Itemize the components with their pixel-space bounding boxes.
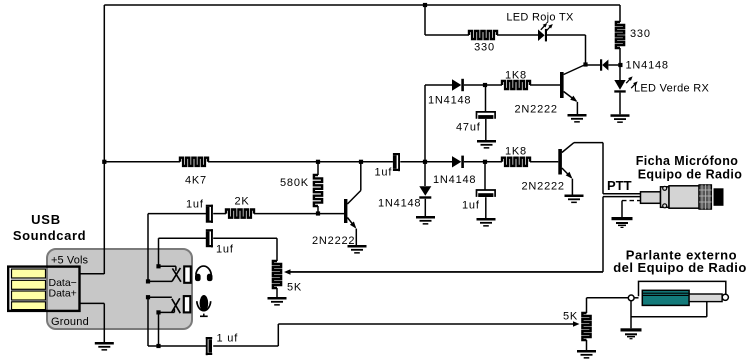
junction left rail row3 xyxy=(102,160,106,164)
wire +5V from USB plug to rail xyxy=(80,273,105,275)
headphone jack switch contact xyxy=(172,268,180,282)
wire row2 to row3 vertical xyxy=(424,85,426,162)
junction 580K top xyxy=(316,160,320,164)
wire left terminal link xyxy=(634,297,638,299)
wire mic upper contact xyxy=(148,296,172,298)
ground mic connector shield xyxy=(612,217,633,220)
wire top rail drop to TX branch xyxy=(424,5,426,35)
wire top rail to 330 resistor xyxy=(619,5,621,22)
svg-text:2N2222: 2N2222 xyxy=(312,235,355,247)
wire USB ground from plug xyxy=(80,302,105,304)
wire 330 to RX node xyxy=(619,48,621,65)
capacitor 47uf xyxy=(477,112,496,119)
USB plug outline xyxy=(8,267,79,311)
svg-text:1N4148: 1N4148 xyxy=(378,198,421,210)
mic connector shaft xyxy=(641,192,661,204)
junction row2 / 47uf xyxy=(483,83,487,87)
ground Q1 emitter xyxy=(568,114,587,117)
mic connector barrel xyxy=(669,186,699,208)
capacitor 1uf mic line xyxy=(206,337,208,355)
svg-text:5K: 5K xyxy=(563,311,578,323)
diode 1N4148 row3 xyxy=(452,156,461,167)
junction Q3 collector xyxy=(359,160,363,164)
wire 47uf stem xyxy=(485,85,487,112)
mic connector end pin xyxy=(714,188,724,206)
transistor Q1 emitter xyxy=(564,92,577,102)
svg-text:+5 Vols: +5 Vols xyxy=(51,255,88,267)
wire cap row5 to pot top xyxy=(213,237,277,239)
wire mic lower to bottom run xyxy=(158,312,160,346)
microphone icon xyxy=(200,295,209,311)
wire to Q3 base xyxy=(318,213,344,215)
potentiometer 5K sidetone xyxy=(273,261,281,288)
wire headphone lower contact xyxy=(148,280,172,282)
resistor 1K8 row2 xyxy=(502,81,530,89)
svg-text:2N2222: 2N2222 xyxy=(522,181,565,193)
wire mic cap to pot2 wiper xyxy=(213,345,278,347)
wire pot1 to ground xyxy=(276,288,278,297)
transistor Q2 emitter xyxy=(562,168,571,178)
transistor Q1 collector xyxy=(564,65,586,75)
wire cap to 2K xyxy=(213,213,226,215)
wire 4K7 to 580K junction xyxy=(208,161,318,163)
svg-text:1N4148: 1N4148 xyxy=(626,60,669,72)
wire mic jack to bottom run xyxy=(147,297,149,346)
junction row3 / 1uf shunt xyxy=(483,160,487,164)
junction bottom run xyxy=(156,344,160,348)
svg-text:1uf: 1uf xyxy=(462,200,480,212)
wire Q2 emitter to ground xyxy=(571,179,573,195)
resistor 330 TX xyxy=(469,31,497,39)
wire mic lower contact xyxy=(159,311,175,313)
wire row5 from jack xyxy=(158,238,160,266)
svg-text:Ground: Ground xyxy=(51,316,89,328)
mic connector knurled ring xyxy=(699,185,712,209)
wire Q1 emitter to ground xyxy=(576,102,578,114)
wire shield to ground xyxy=(621,201,623,217)
potentiometer 5K speaker xyxy=(582,313,590,340)
wire Q3 emitter to ground xyxy=(355,229,357,245)
ground Q2 emitter xyxy=(565,195,584,198)
wire junction to diode row3 xyxy=(425,161,452,163)
ground below 1uf shunt xyxy=(477,218,496,221)
LED Rojo TX arrows xyxy=(541,24,546,30)
junction 580K bottom xyxy=(316,211,320,215)
svg-text:del Equipo de Radio: del Equipo de Radio xyxy=(613,260,747,275)
transistor Q3 emitter xyxy=(347,218,355,228)
speaker terminal left xyxy=(628,295,634,301)
capacitor 1uf row5 xyxy=(206,231,210,245)
pot2 wiper arrow xyxy=(573,321,580,327)
svg-text:330: 330 xyxy=(630,28,651,40)
transistor Q2 collector xyxy=(562,143,574,153)
junction top rail / TX branch xyxy=(423,3,427,7)
resistor 1K8 row3 xyxy=(502,158,530,166)
wire diode to junction row2 xyxy=(464,84,485,86)
resistor 330 RX xyxy=(616,22,624,48)
junction mic jack upper xyxy=(146,295,150,299)
svg-text:LED Rojo TX: LED Rojo TX xyxy=(506,12,574,24)
wire 1K8 to Q2 base xyxy=(530,161,558,163)
wire to series cap row3 xyxy=(361,161,393,163)
ground below pot1 xyxy=(268,297,287,300)
wire resistor to LED TX xyxy=(497,34,538,36)
svg-text:1N4148: 1N4148 xyxy=(428,95,471,107)
ground speaker xyxy=(621,328,642,331)
junction collector node xyxy=(583,62,587,66)
wire speaker left terminal to ground xyxy=(630,301,632,329)
capacitor 1uf row3 xyxy=(393,155,397,169)
junction RX node xyxy=(618,63,622,67)
USB plug contact pad 4 (Ground) xyxy=(12,302,46,310)
wire pot1 wiper xyxy=(288,271,604,273)
junction mic jack lower xyxy=(156,310,160,314)
diode 1N4148 to collector node xyxy=(609,64,621,66)
svg-text:Ficha Micrófono: Ficha Micrófono xyxy=(636,154,739,168)
mic connector collar xyxy=(661,187,670,208)
transistor Q1 2N2222 bar xyxy=(560,72,564,98)
wire +5V top rail xyxy=(104,4,620,6)
speaker body teal xyxy=(642,290,689,305)
svg-text:Data+: Data+ xyxy=(49,288,77,300)
capacitor 1uf shunt row3 xyxy=(484,162,486,190)
wire row2 from vertical feed xyxy=(425,84,452,86)
svg-text:USB: USB xyxy=(31,212,61,227)
svg-text:PTT: PTT xyxy=(607,178,632,193)
wire +5V left rail vertical xyxy=(103,5,105,274)
wire LED Verde to ground xyxy=(619,93,621,115)
diode 1N4148 shunt down xyxy=(424,162,426,186)
mic jack switch contact xyxy=(171,298,179,313)
resistor 4K7 xyxy=(180,158,208,166)
wire headphone upper contact xyxy=(159,265,176,267)
wire cap to diode junction row3 xyxy=(400,161,425,163)
wire 1K8 to Q1 base xyxy=(530,84,560,86)
ground Q3 emitter xyxy=(348,245,367,248)
svg-text:1uf: 1uf xyxy=(186,199,204,211)
pot1 wiper arrow xyxy=(284,269,291,275)
wire mic audio lead and drop to pot1 wiper xyxy=(603,196,641,198)
svg-text:LED Verde RX: LED Verde RX xyxy=(634,83,710,95)
speaker plug shaft xyxy=(689,294,722,302)
transistor Q3 collector xyxy=(347,191,360,205)
transistor Q3 2N2222 bar xyxy=(344,199,347,223)
svg-text:4K7: 4K7 xyxy=(185,175,207,187)
ground below shunt diode xyxy=(416,216,435,219)
svg-text:Soundcard: Soundcard xyxy=(13,228,86,243)
transistor Q2 2N2222 bar xyxy=(558,149,562,175)
USB plug contact pad 2 (Data-) xyxy=(12,280,46,289)
headphone icon xyxy=(196,266,212,275)
resistor 2K xyxy=(226,210,254,218)
svg-text:1K8: 1K8 xyxy=(505,146,527,158)
svg-text:5K: 5K xyxy=(287,282,302,294)
LED Rojo TX diode xyxy=(538,29,545,41)
capacitor 1uf row4 xyxy=(206,207,210,221)
wire row3 left segment xyxy=(104,161,180,163)
wire PTT upper lead xyxy=(603,193,641,195)
wire diode to junction2 row3 xyxy=(464,161,485,163)
wire LED TX to collector node xyxy=(547,34,586,36)
USB plug contact pad 3 (Data+) xyxy=(12,291,46,300)
wire row4 from jack xyxy=(147,214,149,282)
junction headphone jack lower xyxy=(146,279,150,283)
wire 47uf to ground xyxy=(485,119,487,140)
wire pot2 top to speaker node xyxy=(586,298,588,313)
svg-text:580K: 580K xyxy=(280,177,309,189)
resistor 580K xyxy=(317,162,319,175)
wire RX node to LED Verde xyxy=(619,65,621,80)
headphone jack sleeve xyxy=(184,266,191,282)
ground below USB module xyxy=(95,342,114,345)
LED Verde RX arrows xyxy=(626,78,631,84)
USB soundcard module body xyxy=(47,249,192,329)
wire junction to 1K8 row2 xyxy=(485,84,502,86)
svg-text:1K8: 1K8 xyxy=(505,70,527,82)
USB plug contact pad 1 (+5V) xyxy=(12,269,46,278)
svg-text:1uf: 1uf xyxy=(375,167,393,179)
junction headphone jack upper xyxy=(156,264,160,268)
junction row3 clamp node xyxy=(423,160,427,164)
svg-text:1uf: 1uf xyxy=(216,244,234,256)
ground below 47uf xyxy=(477,140,496,143)
svg-text:2K: 2K xyxy=(234,196,249,208)
svg-text:Equipo de Radio: Equipo de Radio xyxy=(638,168,743,182)
speaker wire frame xyxy=(639,281,726,296)
ground below pot2 xyxy=(577,350,596,353)
wire junction to 1K8 row3 xyxy=(485,161,502,163)
svg-text:1N4148: 1N4148 xyxy=(433,174,476,186)
LED Verde RX diode xyxy=(614,80,625,90)
speaker terminal right xyxy=(722,294,728,300)
diode 1N4148 row2 xyxy=(452,79,461,90)
ground below LED Verde RX xyxy=(611,114,630,117)
svg-text:2N2222: 2N2222 xyxy=(515,104,558,116)
svg-text:1 uf: 1 uf xyxy=(217,333,239,345)
wire shield dashed lead xyxy=(622,200,641,202)
wire speaker return xyxy=(706,302,708,317)
wire to Q3 collector junction xyxy=(318,161,361,163)
wire 2K to 580K bottom junction xyxy=(254,213,318,215)
wire pot2 bottom to ground xyxy=(586,340,588,350)
mic jack sleeve xyxy=(184,296,191,312)
svg-text:330: 330 xyxy=(474,42,495,54)
svg-text:47uf: 47uf xyxy=(456,122,481,134)
